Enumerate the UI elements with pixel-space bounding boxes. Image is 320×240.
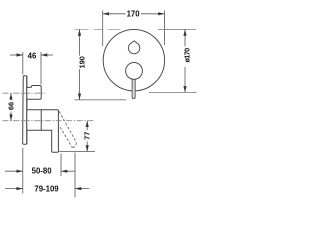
svg-text:ø170: ø170 [183,48,192,63]
svg-text:190: 190 [78,56,87,68]
side view: upper knob profile [27,86,41,100]
dim 66 [10,93,12,121]
dim ø170 extension top [158,28,196,30]
centerline knob axis [3,92,46,94]
front view: central knob [126,63,143,80]
dim 46 [10,52,53,85]
dim 79-109 [5,153,89,198]
svg-text:46: 46 [28,51,37,60]
front view: lever bar [132,74,135,99]
svg-text:170: 170 [127,10,141,19]
body/lever divider [40,110,42,131]
centerline valve axis [3,120,94,122]
dim 170 [103,11,165,47]
dim ø170 extension bottom [149,91,197,93]
dim 50-80 [5,148,75,194]
side view: wall plate [23,76,27,144]
side view: valve body and lever [27,110,59,152]
svg-text:50-80: 50-80 [32,166,53,175]
svg-text:66: 66 [7,102,16,110]
dashed lever alternate position [59,111,76,147]
dim ø170 [184,29,186,92]
dim 190 [79,29,81,99]
dim 77 [59,151,95,153]
svg-text:79-109: 79-109 [34,185,59,194]
svg-text:77: 77 [83,132,92,140]
front view: face plate circle [103,30,164,91]
plate front face edge [26,76,28,144]
dim 190 extension top [75,28,121,30]
dim 190 extension bottom [75,99,127,101]
front view: drop symbol button [128,41,139,54]
